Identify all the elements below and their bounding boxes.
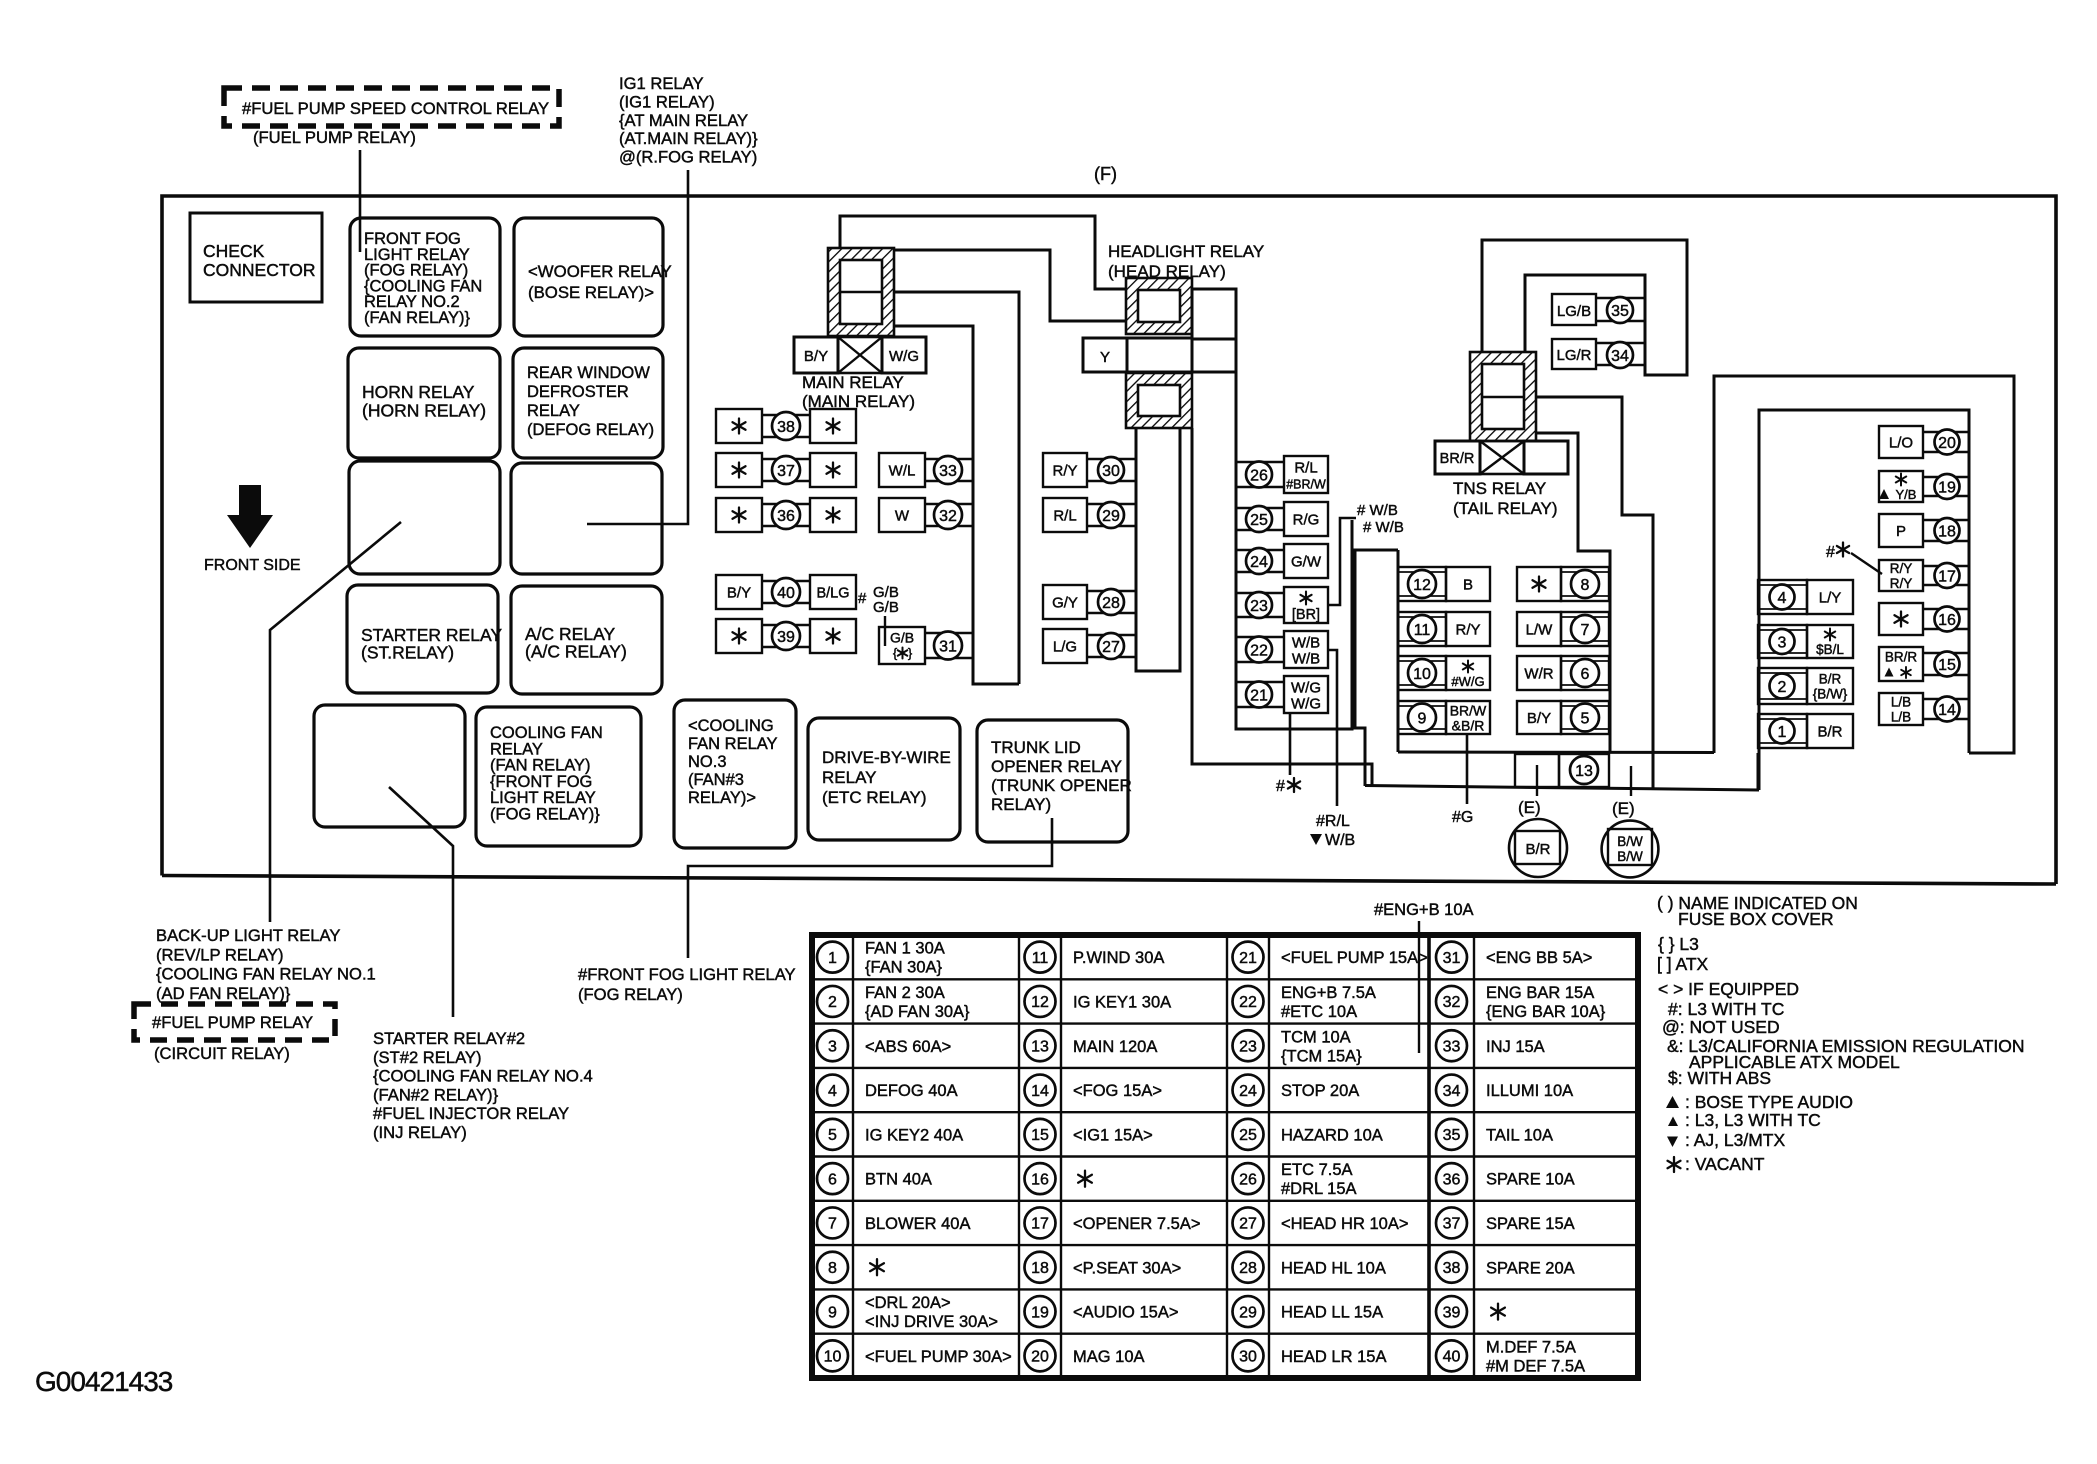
svg-text:LG/R: LG/R bbox=[1556, 347, 1591, 364]
svg-text:12: 12 bbox=[1413, 577, 1431, 594]
svg-text:8: 8 bbox=[1581, 577, 1590, 594]
svg-text:8: 8 bbox=[828, 1260, 837, 1277]
svg-text:W/G: W/G bbox=[1291, 680, 1321, 697]
svg-text:FAN 2 30A: FAN 2 30A bbox=[865, 984, 945, 1002]
svg-text:B/R: B/R bbox=[1817, 724, 1842, 741]
svg-text:B/Y: B/Y bbox=[804, 348, 828, 365]
svg-text:5: 5 bbox=[1581, 710, 1590, 727]
svg-text:28: 28 bbox=[1239, 1260, 1257, 1277]
wire main relay to headlight relay bbox=[894, 250, 1126, 321]
table row fuse 1 bbox=[817, 942, 848, 973]
relay cooling fan bbox=[476, 707, 641, 846]
svg-text:#M DEF 7.5A: #M DEF 7.5A bbox=[1486, 1357, 1585, 1375]
table row fuse 9 bbox=[817, 1296, 848, 1327]
svg-text:5: 5 bbox=[828, 1127, 837, 1144]
svg-text:#FUEL PUMP SPEED CONTROL RELAY: #FUEL PUMP SPEED CONTROL RELAY bbox=[242, 99, 549, 118]
svg-text:IG KEY2 40A: IG KEY2 40A bbox=[865, 1126, 963, 1144]
svg-text:MAIN RELAY: MAIN RELAY bbox=[802, 373, 904, 392]
table row fuse 37 bbox=[1436, 1207, 1467, 1238]
svg-text:B/LG: B/LG bbox=[816, 586, 849, 602]
main relay socket (hatched) bbox=[828, 248, 894, 336]
svg-text:(TRUNK OPENER: (TRUNK OPENER bbox=[991, 776, 1132, 795]
svg-text:INJ 15A: INJ 15A bbox=[1486, 1038, 1545, 1056]
svg-text:$B/L: $B/L bbox=[1816, 642, 1844, 657]
svg-text:(MAIN RELAY): (MAIN RELAY) bbox=[802, 392, 915, 411]
table row fuse 34 bbox=[1436, 1075, 1467, 1106]
table row fuse 20 bbox=[1025, 1340, 1056, 1371]
svg-text:ETC 7.5A: ETC 7.5A bbox=[1281, 1161, 1353, 1179]
wire fuse 21 to #star label bbox=[1289, 713, 1292, 775]
svg-text:(FAN#2 RELAY)}: (FAN#2 RELAY)} bbox=[373, 1085, 499, 1104]
svg-text:19: 19 bbox=[1938, 479, 1956, 496]
svg-text:#DRL 15A: #DRL 15A bbox=[1281, 1180, 1357, 1198]
svg-text:R/L: R/L bbox=[1294, 460, 1317, 477]
wire trunk lid opener pointer bbox=[688, 818, 1052, 958]
fuse 11 bbox=[1398, 612, 1446, 646]
relay rear window defroster bbox=[513, 348, 663, 458]
fuse 3 bbox=[1758, 625, 1807, 658]
svg-text:3: 3 bbox=[1778, 634, 1787, 651]
svg-text:R/Y: R/Y bbox=[1455, 622, 1480, 639]
right panel inner block bbox=[1759, 410, 1969, 790]
svg-text:W/B: W/B bbox=[1325, 832, 1355, 849]
svg-text:DEFROSTER: DEFROSTER bbox=[527, 383, 629, 401]
svg-text:<ENG BB 5A>: <ENG BB 5A> bbox=[1486, 949, 1592, 967]
relay starter bbox=[347, 585, 498, 693]
svg-text:CHECK: CHECK bbox=[203, 241, 265, 261]
svg-text:(FAN RELAY): (FAN RELAY) bbox=[490, 757, 591, 775]
svg-text:20: 20 bbox=[1938, 435, 1956, 452]
fuse 20 bbox=[1879, 426, 1923, 458]
svg-text:B/Y: B/Y bbox=[727, 585, 751, 602]
fuse 17 bbox=[1879, 560, 1923, 591]
table row fuse 24 bbox=[1233, 1075, 1264, 1106]
svg-text:28: 28 bbox=[1102, 595, 1120, 612]
headlight relay socket lower (hatched) bbox=[1126, 373, 1192, 428]
table row fuse 4 bbox=[817, 1075, 848, 1106]
svg-text:W: W bbox=[895, 508, 910, 525]
table row fuse 25 bbox=[1233, 1119, 1264, 1150]
svg-text:<HEAD HR 10A>: <HEAD HR 10A> bbox=[1281, 1215, 1408, 1233]
svg-text:COOLING FAN: COOLING FAN bbox=[490, 724, 603, 742]
svg-text:RELAY): RELAY) bbox=[991, 795, 1051, 814]
svg-text:<FOG 15A>: <FOG 15A> bbox=[1073, 1082, 1162, 1100]
svg-text:MAG 10A: MAG 10A bbox=[1073, 1348, 1145, 1366]
svg-text:P.WIND 30A: P.WIND 30A bbox=[1073, 949, 1164, 967]
svg-text:STARTER RELAY#2: STARTER RELAY#2 bbox=[373, 1029, 525, 1048]
svg-text:{TCM 15A}: {TCM 15A} bbox=[1281, 1047, 1362, 1065]
table row fuse 28 bbox=[1233, 1252, 1264, 1283]
svg-text:W/B: W/B bbox=[1292, 635, 1320, 652]
svg-text:R/L: R/L bbox=[1053, 508, 1076, 525]
svg-text:<P.SEAT 30A>: <P.SEAT 30A> bbox=[1073, 1259, 1181, 1277]
svg-text:26: 26 bbox=[1250, 467, 1268, 484]
fuse 13 bbox=[1515, 754, 1559, 787]
table row fuse 2 bbox=[817, 986, 848, 1017]
table row fuse 17 bbox=[1025, 1207, 1056, 1238]
svg-text:7: 7 bbox=[1581, 622, 1590, 639]
svg-text:: AJ, L3/MTX: : AJ, L3/MTX bbox=[1685, 1130, 1785, 1150]
svg-text:9: 9 bbox=[1418, 710, 1427, 727]
svg-text:18: 18 bbox=[1031, 1260, 1049, 1277]
wire #ENG+B pointer bbox=[1418, 921, 1420, 1053]
svg-text:(A/C RELAY): (A/C RELAY) bbox=[525, 642, 627, 662]
fuse 24 bbox=[1235, 549, 1284, 552]
svg-text:HORN RELAY: HORN RELAY bbox=[362, 382, 475, 402]
wire main relay to top rail bbox=[840, 216, 1126, 289]
relay woofer (bose) bbox=[514, 218, 663, 336]
svg-text:BR/R: BR/R bbox=[1885, 650, 1918, 665]
wire pointer fuel pump relay bbox=[359, 150, 362, 252]
svg-text:B/W: B/W bbox=[1617, 834, 1643, 849]
fuse 34 bbox=[1552, 339, 1596, 369]
wire centre block bottom rails bbox=[1398, 751, 1714, 755]
svg-text:Y: Y bbox=[1100, 349, 1110, 366]
svg-text:9: 9 bbox=[828, 1304, 837, 1321]
table row fuse 16 bbox=[1025, 1163, 1056, 1194]
svg-text:#FUEL PUMP RELAY: #FUEL PUMP RELAY bbox=[152, 1013, 313, 1032]
table row fuse 32 bbox=[1436, 986, 1467, 1017]
table row fuse 14 bbox=[1025, 1075, 1056, 1106]
svg-text:HEAD LL 15A: HEAD LL 15A bbox=[1281, 1304, 1383, 1322]
svg-text:M.DEF 7.5A: M.DEF 7.5A bbox=[1486, 1338, 1576, 1356]
svg-text:G/Y: G/Y bbox=[1052, 595, 1078, 612]
svg-text:L/O: L/O bbox=[1889, 435, 1913, 452]
svg-text:25: 25 bbox=[1239, 1127, 1257, 1144]
table row fuse 13 bbox=[1025, 1030, 1056, 1061]
svg-text:HAZARD 10A: HAZARD 10A bbox=[1281, 1126, 1383, 1144]
svg-text:25: 25 bbox=[1250, 512, 1268, 529]
wire TNS right step down bbox=[1536, 397, 1653, 789]
svg-text:L/B: L/B bbox=[1891, 710, 1911, 725]
svg-text:G/B: G/B bbox=[890, 630, 914, 646]
svg-text:{COOLING FAN RELAY NO.4: {COOLING FAN RELAY NO.4 bbox=[373, 1067, 593, 1086]
fuse 6 bbox=[1517, 656, 1561, 690]
svg-text:NO.3: NO.3 bbox=[688, 753, 727, 771]
headlight relay terminal Y bbox=[1083, 338, 1127, 372]
svg-text:Y/B: Y/B bbox=[1896, 487, 1917, 502]
fuse table grid bbox=[812, 935, 1638, 1378]
fuse 1 bbox=[1758, 714, 1807, 748]
svg-text:(ST#2 RELAY): (ST#2 RELAY) bbox=[373, 1048, 482, 1067]
fuse 25 bbox=[1235, 507, 1284, 510]
svg-text:30: 30 bbox=[1102, 463, 1120, 480]
svg-text:(F): (F) bbox=[1094, 164, 1117, 184]
table row fuse 22 bbox=[1233, 986, 1264, 1017]
svg-text:#: # bbox=[858, 590, 867, 607]
table row fuse 35 bbox=[1436, 1119, 1467, 1150]
svg-text:TNS RELAY: TNS RELAY bbox=[1453, 479, 1546, 498]
svg-text:FUSE BOX COVER: FUSE BOX COVER bbox=[1678, 909, 1834, 929]
svg-text:17: 17 bbox=[1938, 568, 1956, 585]
fuse 38 bbox=[716, 409, 762, 443]
fuse 22 bbox=[1235, 636, 1284, 639]
svg-text:(REV/LP RELAY): (REV/LP RELAY) bbox=[156, 945, 284, 964]
svg-text:ILLUMI 10A: ILLUMI 10A bbox=[1486, 1082, 1573, 1100]
svg-text:16: 16 bbox=[1031, 1171, 1049, 1188]
svg-text:FAN RELAY: FAN RELAY bbox=[688, 735, 778, 753]
TNS relay terminals BR/R X bbox=[1435, 441, 1480, 474]
svg-text:31: 31 bbox=[939, 638, 957, 655]
svg-text:<FUEL PUMP 30A>: <FUEL PUMP 30A> bbox=[865, 1348, 1012, 1366]
fuse 35 bbox=[1552, 294, 1596, 325]
fuse 31 bbox=[879, 627, 925, 664]
svg-text:23: 23 bbox=[1250, 598, 1268, 615]
fuse 32 bbox=[879, 498, 925, 532]
fuse 5 bbox=[1517, 701, 1561, 734]
table row fuse 19 bbox=[1025, 1296, 1056, 1327]
fuse 40 bbox=[716, 575, 762, 609]
svg-text:DRIVE-BY-WIRE: DRIVE-BY-WIRE bbox=[822, 748, 951, 767]
svg-text:<FUEL PUMP 15A>: <FUEL PUMP 15A> bbox=[1281, 949, 1428, 967]
svg-text:24: 24 bbox=[1239, 1083, 1257, 1100]
relay drive-by-wire bbox=[808, 718, 960, 840]
svg-text:23: 23 bbox=[1239, 1039, 1257, 1056]
svg-text:TRUNK LID: TRUNK LID bbox=[991, 738, 1081, 757]
fuse 37 bbox=[716, 453, 762, 487]
fuse 26 bbox=[1235, 461, 1284, 464]
dashed box FUEL PUMP SPEED CONTROL RELAY bbox=[224, 88, 559, 126]
wire G/B tick bbox=[884, 616, 886, 646]
svg-text:35: 35 bbox=[1443, 1127, 1461, 1144]
table row fuse 30 bbox=[1233, 1340, 1264, 1371]
svg-text:(FAN RELAY)}: (FAN RELAY)} bbox=[364, 309, 471, 327]
svg-text:21: 21 bbox=[1239, 950, 1257, 967]
svg-text:11: 11 bbox=[1032, 950, 1049, 967]
svg-text:: L3, L3 WITH TC: : L3, L3 WITH TC bbox=[1685, 1110, 1821, 1130]
svg-text:W/G: W/G bbox=[1291, 696, 1321, 713]
svg-text:B/R: B/R bbox=[1819, 672, 1842, 687]
svg-text:(ETC RELAY): (ETC RELAY) bbox=[822, 788, 927, 807]
relay front fog light / fan no.2 bbox=[350, 218, 500, 336]
svg-text:HEADLIGHT RELAY: HEADLIGHT RELAY bbox=[1108, 242, 1264, 261]
svg-text:17: 17 bbox=[1031, 1216, 1049, 1233]
svg-text:FRONT SIDE: FRONT SIDE bbox=[204, 557, 301, 574]
svg-text:: BOSE TYPE AUDIO: : BOSE TYPE AUDIO bbox=[1685, 1092, 1853, 1112]
table row fuse 5 bbox=[817, 1119, 848, 1150]
svg-text:FAN 1 30A: FAN 1 30A bbox=[865, 940, 945, 958]
right panel outline bbox=[1714, 376, 2014, 753]
svg-text:(FAN#3: (FAN#3 bbox=[688, 771, 744, 789]
TNS relay loop wires bbox=[1482, 240, 1687, 375]
table row fuse 23 bbox=[1233, 1030, 1264, 1061]
svg-text:@: NOT USED: @: NOT USED bbox=[1662, 1017, 1780, 1037]
svg-text:<IG1 15A>: <IG1 15A> bbox=[1073, 1126, 1153, 1144]
svg-text:(CIRCUIT RELAY): (CIRCUIT RELAY) bbox=[154, 1044, 290, 1063]
svg-text:SPARE 10A: SPARE 10A bbox=[1486, 1171, 1575, 1189]
table row fuse 26 bbox=[1233, 1163, 1264, 1194]
svg-text:{: { bbox=[893, 646, 898, 661]
table row fuse 15 bbox=[1025, 1119, 1056, 1150]
svg-text:37: 37 bbox=[1443, 1216, 1461, 1233]
svg-text:: VACANT: : VACANT bbox=[1685, 1154, 1765, 1174]
svg-text:(INJ RELAY): (INJ RELAY) bbox=[373, 1123, 467, 1142]
svg-text:#ENG+B 10A: #ENG+B 10A bbox=[1374, 901, 1474, 919]
svg-text:39: 39 bbox=[777, 629, 795, 646]
svg-text:29: 29 bbox=[1102, 508, 1120, 525]
svg-text:< > IF EQUIPPED: < > IF EQUIPPED bbox=[1658, 979, 1799, 999]
svg-text:BR/R: BR/R bbox=[1440, 451, 1475, 467]
fuse 8 bbox=[1517, 567, 1561, 601]
svg-text:#: # bbox=[1826, 544, 1835, 561]
ground connector E1 pointer bbox=[1536, 765, 1538, 796]
svg-text:B/Y: B/Y bbox=[1527, 710, 1551, 727]
svg-text:G00421433: G00421433 bbox=[35, 1366, 173, 1397]
svg-text:(AD FAN RELAY)}: (AD FAN RELAY)} bbox=[156, 984, 291, 1003]
table row fuse 27 bbox=[1233, 1207, 1264, 1238]
svg-text:(AT.MAIN RELAY)}: (AT.MAIN RELAY)} bbox=[619, 129, 758, 148]
svg-text:34: 34 bbox=[1611, 348, 1629, 365]
svg-text:3: 3 bbox=[828, 1039, 837, 1056]
svg-text:<AUDIO 15A>: <AUDIO 15A> bbox=[1073, 1304, 1178, 1322]
svg-text:B/R: B/R bbox=[1525, 841, 1550, 858]
relay a/c bbox=[511, 586, 662, 694]
fuse 21 bbox=[1235, 681, 1284, 684]
table row fuse 29 bbox=[1233, 1296, 1264, 1327]
svg-text:{FAN 30A}: {FAN 30A} bbox=[865, 959, 943, 977]
svg-text:B: B bbox=[1463, 577, 1473, 594]
relay empty (back-up) bbox=[314, 705, 465, 827]
svg-text:(E): (E) bbox=[1518, 798, 1541, 817]
wire fuse 9 to #G label bbox=[1466, 734, 1469, 804]
fuse 10 bbox=[1398, 656, 1446, 690]
svg-text:4: 4 bbox=[1778, 590, 1787, 607]
svg-text:<COOLING: <COOLING bbox=[688, 717, 774, 735]
svg-text:IG KEY1 30A: IG KEY1 30A bbox=[1073, 993, 1171, 1011]
fuse 36 bbox=[716, 498, 762, 532]
svg-text:BLOWER 40A: BLOWER 40A bbox=[865, 1215, 970, 1233]
fuse 14 bbox=[1879, 693, 1923, 725]
fuse 4 bbox=[1758, 580, 1807, 614]
fuse 29 bbox=[1043, 498, 1087, 532]
svg-text:# W/B: # W/B bbox=[1363, 519, 1404, 536]
wire main relay bus right bbox=[894, 292, 1019, 684]
svg-text:15: 15 bbox=[1938, 657, 1956, 674]
svg-text:HEAD HL 10A: HEAD HL 10A bbox=[1281, 1259, 1386, 1277]
wire headlight to fuse column 26-21 bbox=[1236, 372, 1352, 729]
svg-text:{B/W}: {B/W} bbox=[1813, 687, 1848, 702]
svg-text:(FUEL PUMP RELAY): (FUEL PUMP RELAY) bbox=[253, 128, 416, 147]
svg-text:39: 39 bbox=[1443, 1304, 1461, 1321]
ground connector E2 pointer bbox=[1630, 766, 1632, 796]
wire pointer IG1 relay bbox=[587, 170, 688, 524]
svg-text:{COOLING FAN RELAY NO.1: {COOLING FAN RELAY NO.1 bbox=[156, 965, 376, 984]
svg-text:22: 22 bbox=[1239, 994, 1257, 1011]
svg-text:(HORN RELAY): (HORN RELAY) bbox=[362, 401, 486, 421]
svg-text:L/B: L/B bbox=[1891, 695, 1911, 710]
relay trunk lid opener bbox=[977, 720, 1128, 842]
svg-text:BR/W: BR/W bbox=[1450, 703, 1487, 719]
svg-text:(ST.RELAY): (ST.RELAY) bbox=[361, 643, 454, 663]
svg-text:12: 12 bbox=[1031, 994, 1049, 1011]
svg-text:14: 14 bbox=[1938, 702, 1956, 719]
svg-text:RELAY: RELAY bbox=[822, 768, 877, 787]
svg-text:11: 11 bbox=[1414, 622, 1431, 639]
ground connector E2 B/W bbox=[1602, 821, 1659, 878]
svg-text:34: 34 bbox=[1443, 1083, 1461, 1100]
fuse 23 bbox=[1235, 592, 1284, 595]
svg-text:P: P bbox=[1896, 523, 1906, 540]
svg-text:HEAD LR 15A: HEAD LR 15A bbox=[1281, 1348, 1386, 1366]
svg-text:[BR]: [BR] bbox=[1292, 607, 1320, 623]
headlight relay side box bbox=[1192, 289, 1236, 339]
svg-text:$: WITH ABS: $: WITH ABS bbox=[1668, 1068, 1771, 1088]
svg-text:#: L3 WITH TC: #: L3 WITH TC bbox=[1668, 999, 1784, 1019]
svg-text:LG/B: LG/B bbox=[1557, 303, 1591, 320]
svg-text:#G: #G bbox=[1452, 809, 1473, 826]
svg-text:{AT MAIN RELAY: {AT MAIN RELAY bbox=[619, 111, 748, 130]
fuse 28 bbox=[1043, 585, 1087, 619]
relay empty (IG1) bbox=[349, 461, 500, 574]
svg-text:27: 27 bbox=[1102, 639, 1120, 656]
svg-text:DEFOG 40A: DEFOG 40A bbox=[865, 1082, 958, 1100]
table row fuse 33 bbox=[1436, 1030, 1467, 1061]
wire headlight bus bbox=[1136, 428, 1180, 671]
main relay terminals B/Y X W/G bbox=[794, 337, 838, 373]
svg-text:31: 31 bbox=[1443, 950, 1461, 967]
fuse 18 bbox=[1879, 514, 1923, 547]
wire main relay bus left bbox=[894, 326, 1019, 684]
svg-text:1: 1 bbox=[1778, 724, 1787, 741]
svg-text:<DRL 20A>: <DRL 20A> bbox=[865, 1294, 951, 1312]
svg-text:W/L: W/L bbox=[889, 463, 916, 480]
svg-text:SPARE 15A: SPARE 15A bbox=[1486, 1215, 1575, 1233]
svg-text:6: 6 bbox=[1581, 666, 1590, 683]
svg-text:16: 16 bbox=[1938, 612, 1956, 629]
svg-text:{AD FAN 30A}: {AD FAN 30A} bbox=[865, 1003, 970, 1021]
svg-text:#ETC 10A: #ETC 10A bbox=[1281, 1003, 1357, 1021]
relay empty (at main) bbox=[511, 463, 662, 574]
wire TNS small step bbox=[1536, 433, 1610, 752]
table row fuse 39 bbox=[1436, 1296, 1467, 1327]
fuse 12 bbox=[1398, 567, 1446, 601]
table row fuse 7 bbox=[817, 1207, 848, 1238]
wire fuse 23 to #W/B label bbox=[1328, 518, 1356, 605]
svg-text:BACK-UP LIGHT RELAY: BACK-UP LIGHT RELAY bbox=[156, 926, 340, 945]
table row fuse 21 bbox=[1233, 942, 1264, 973]
svg-text:2: 2 bbox=[828, 994, 837, 1011]
svg-text:# W/B: # W/B bbox=[1357, 502, 1398, 519]
relay horn bbox=[348, 348, 500, 458]
svg-text:38: 38 bbox=[777, 419, 795, 436]
svg-text:<ABS 60A>: <ABS 60A> bbox=[865, 1038, 951, 1056]
svg-text:40: 40 bbox=[777, 585, 795, 602]
svg-text:B/W: B/W bbox=[1617, 849, 1643, 864]
fuse 2 bbox=[1758, 668, 1807, 704]
table row fuse 40 bbox=[1436, 1340, 1467, 1371]
svg-text:37: 37 bbox=[777, 463, 795, 480]
svg-text:22: 22 bbox=[1250, 642, 1268, 659]
table row fuse 11 bbox=[1025, 942, 1056, 973]
svg-text:13: 13 bbox=[1575, 763, 1593, 780]
svg-text:21: 21 bbox=[1250, 687, 1268, 704]
svg-text:13: 13 bbox=[1031, 1039, 1049, 1056]
svg-text:<WOOFER RELAY: <WOOFER RELAY bbox=[528, 262, 672, 281]
wire right panel bottom bbox=[1757, 753, 1760, 790]
svg-text:(BOSE RELAY)>: (BOSE RELAY)> bbox=[528, 283, 654, 302]
svg-text:2: 2 bbox=[1778, 679, 1787, 696]
TNS relay socket (hatched) bbox=[1470, 352, 1536, 441]
svg-text:G/W: G/W bbox=[1291, 554, 1322, 571]
fuse 9 bbox=[1398, 701, 1446, 734]
svg-text:38: 38 bbox=[1443, 1260, 1461, 1277]
wire fuse 22 to #R/L label bbox=[1328, 650, 1337, 806]
fuse 7 bbox=[1517, 612, 1561, 646]
relay cooling fan no.3 bbox=[674, 700, 796, 848]
svg-text:18: 18 bbox=[1938, 523, 1956, 540]
svg-text:14: 14 bbox=[1031, 1083, 1049, 1100]
svg-text:BTN 40A: BTN 40A bbox=[865, 1171, 932, 1189]
